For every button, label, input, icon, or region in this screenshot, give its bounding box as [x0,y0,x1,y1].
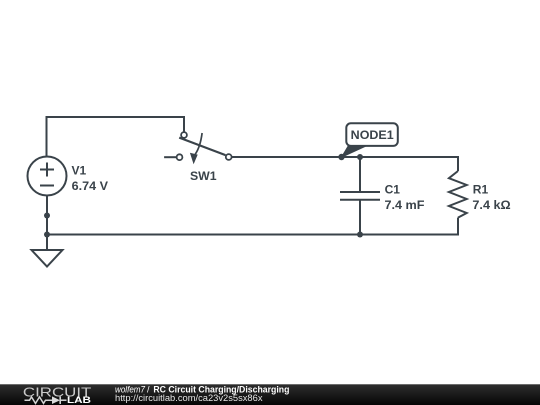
wire switch common stub [183,116,185,132]
footer url text [115,393,263,403]
switch SW1 [164,132,232,164]
ground [32,250,63,267]
wire V1 top vertical [46,117,48,157]
svg-text:LAB: LAB [67,395,91,405]
CircuitLab logo wordmark LAB [67,395,91,405]
capacitor C1 [340,157,380,235]
footer bar [0,384,540,405]
label C1 value [385,182,425,212]
wire R1 top vertical [457,156,459,171]
svg-text:http://circuitlab.com/ca23v2s5: http://circuitlab.com/ca23v2s5sx86x [115,393,263,403]
junction dot C1 top [357,154,363,160]
wire bottom horizontal ground net [47,234,458,236]
voltage source V1 [28,157,67,196]
wire R1 bottom vertical [457,218,459,236]
junction dot ground net left [44,232,50,238]
node NODE1 flag [342,123,398,157]
svg-text:NODE1: NODE1 [351,128,394,142]
svg-text:V1: V1 [72,164,87,178]
wire top horizontal [46,116,185,118]
CircuitLab logo wordmark CIRCUIT [23,385,92,399]
footer title text [115,384,289,394]
svg-text:7.4 kΩ: 7.4 kΩ [472,198,511,212]
label R1 value [472,182,511,212]
junction dot V1 negative terminal [44,213,50,219]
wire switch to R1 corner horizontal [232,156,458,158]
svg-text:SW1: SW1 [190,169,217,183]
svg-text:R1: R1 [473,182,489,196]
svg-text:C1: C1 [385,182,401,196]
junction dot NODE1 [338,154,344,160]
svg-text:7.4 mF: 7.4 mF [385,198,425,212]
label V1 value [72,164,109,193]
wire V1 bottom vertical [46,196,48,251]
label SW1 [190,169,217,183]
resistor R1 [449,171,467,218]
CircuitLab logo schematic squiggle (resistor + diode) [25,396,67,404]
svg-text:6.74 V: 6.74 V [72,179,108,193]
junction dot C1 bottom [357,232,363,238]
